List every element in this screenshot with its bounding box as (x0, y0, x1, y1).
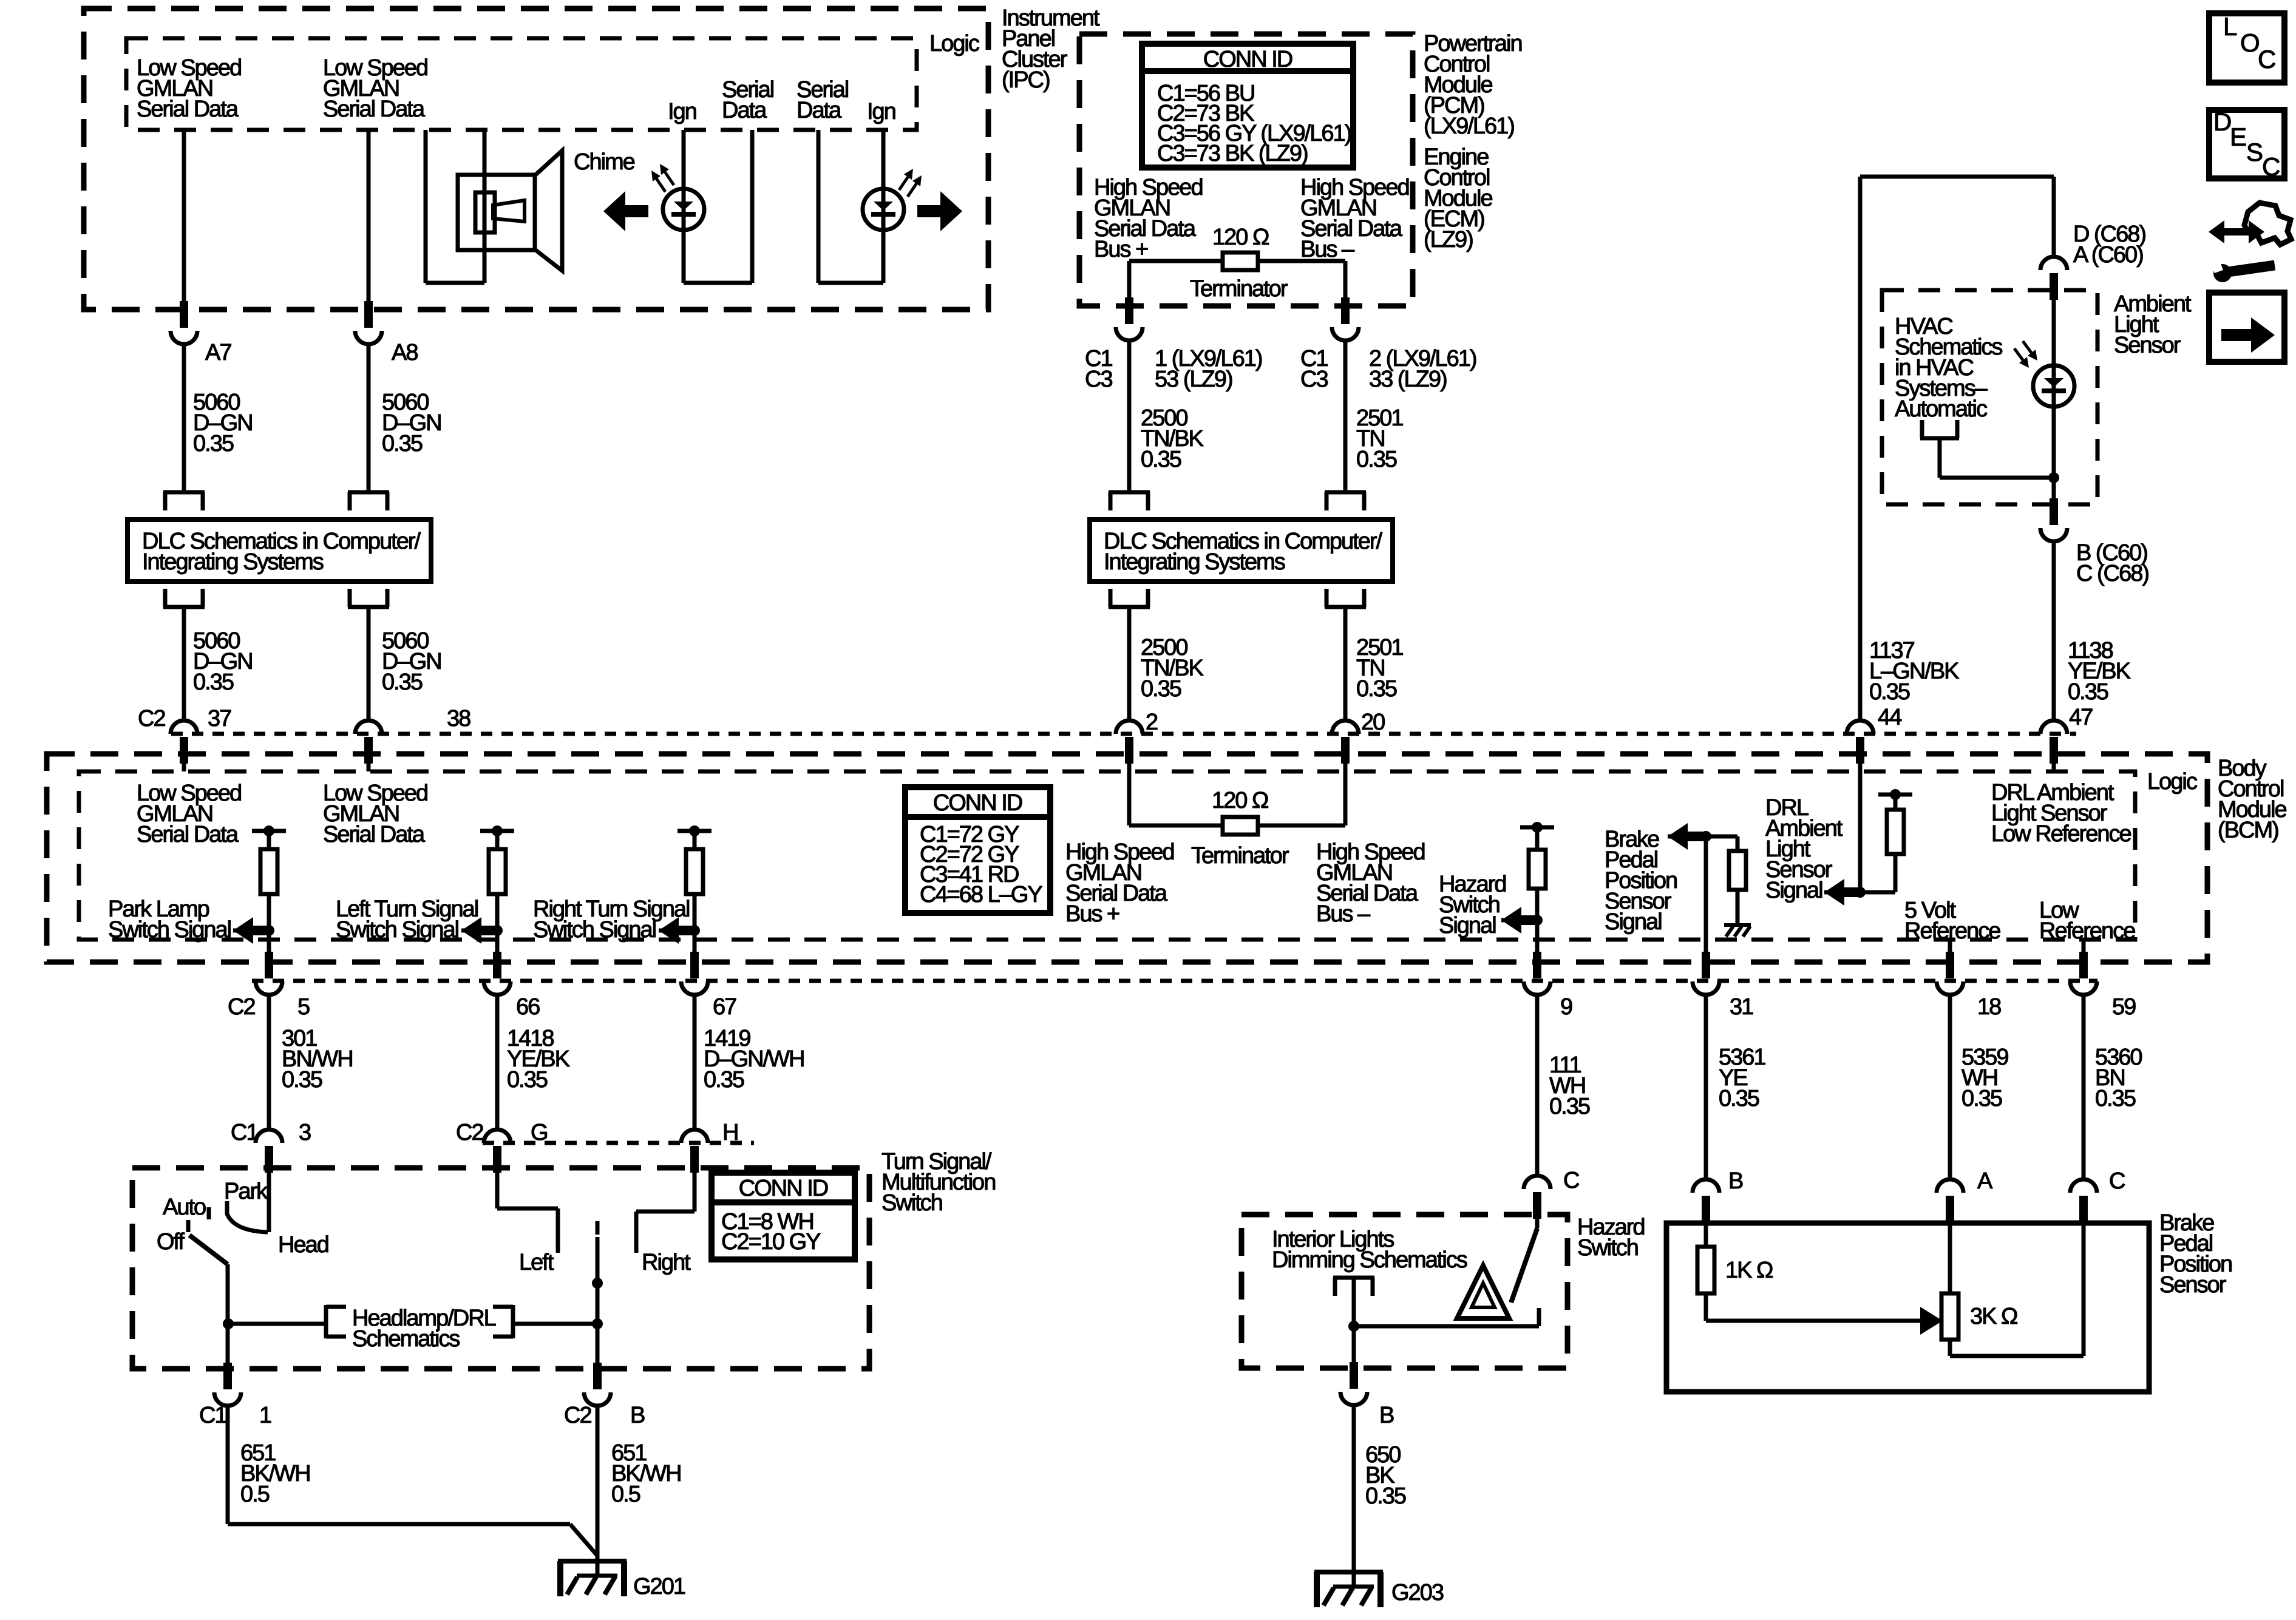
svg-text:0.35: 0.35 (1549, 1094, 1590, 1119)
svg-text:0.35: 0.35 (382, 669, 423, 695)
svg-text:Switch: Switch (1577, 1235, 1638, 1261)
svg-text:Bus +: Bus + (1065, 901, 1119, 927)
svg-text:Logic: Logic (2147, 769, 2197, 795)
svg-text:Terminator: Terminator (1190, 276, 1288, 302)
svg-text:37: 37 (208, 706, 231, 731)
svg-text:0.35: 0.35 (1961, 1086, 2002, 1111)
svg-text:0.35: 0.35 (282, 1067, 322, 1093)
svg-text:Schematics: Schematics (352, 1326, 460, 1352)
svg-text:L: L (2223, 12, 2237, 41)
svg-text:Serial Data: Serial Data (137, 97, 239, 122)
svg-text:Switch Signal: Switch Signal (533, 917, 656, 943)
svg-text:Terminator: Terminator (1191, 843, 1289, 869)
svg-text:Data: Data (796, 98, 842, 123)
svg-text:(LX9/L61): (LX9/L61) (1424, 114, 1514, 139)
svg-text:C3: C3 (1085, 367, 1112, 392)
svg-text:Serial Data: Serial Data (323, 97, 426, 122)
svg-text:38: 38 (447, 706, 470, 731)
svg-text:Ign: Ign (668, 99, 696, 124)
svg-text:G: G (531, 1120, 548, 1145)
svg-text:A7: A7 (205, 340, 231, 365)
svg-text:(BCM): (BCM) (2218, 818, 2278, 843)
svg-text:E: E (2230, 123, 2246, 151)
svg-text:O: O (2240, 29, 2259, 57)
svg-text:Bus –: Bus – (1316, 901, 1371, 927)
svg-text:1K Ω: 1K Ω (1725, 1258, 1773, 1283)
svg-text:C4=68 L–GY: C4=68 L–GY (920, 882, 1042, 907)
svg-text:31: 31 (1730, 994, 1753, 1020)
svg-text:44: 44 (1878, 705, 1902, 730)
svg-text:C3: C3 (1300, 367, 1328, 392)
svg-text:47: 47 (2069, 705, 2093, 730)
svg-text:33 (LZ9): 33 (LZ9) (1369, 367, 1447, 392)
svg-text:C: C (2109, 1168, 2125, 1194)
svg-text:C: C (1563, 1168, 1579, 1193)
svg-text:0.35: 0.35 (1869, 679, 1910, 705)
svg-text:0.35: 0.35 (1719, 1086, 1759, 1111)
svg-text:Serial Data: Serial Data (323, 822, 426, 847)
svg-text:C2=10 GY: C2=10 GY (721, 1229, 821, 1255)
svg-text:(IPC): (IPC) (1002, 67, 1050, 93)
svg-text:C2: C2 (564, 1403, 591, 1428)
svg-text:Integrating Systems: Integrating Systems (1104, 549, 1285, 575)
svg-text:59: 59 (2112, 994, 2136, 1020)
svg-text:0.35: 0.35 (507, 1067, 548, 1093)
svg-text:1: 1 (259, 1403, 271, 1428)
svg-text:120 Ω: 120 Ω (1212, 225, 1269, 250)
svg-text:0.35: 0.35 (1141, 447, 1181, 472)
svg-text:0.35: 0.35 (193, 669, 234, 695)
svg-text:Off: Off (157, 1229, 185, 1255)
svg-text:5: 5 (297, 994, 310, 1020)
svg-text:Sensor: Sensor (2159, 1272, 2227, 1298)
svg-text:0.35: 0.35 (2068, 679, 2108, 705)
svg-text:Data: Data (722, 98, 767, 123)
svg-text:A (C60): A (C60) (2073, 242, 2143, 268)
svg-text:0.35: 0.35 (704, 1067, 744, 1093)
svg-text:G201: G201 (633, 1574, 685, 1599)
svg-text:0.35: 0.35 (193, 431, 234, 456)
svg-text:20: 20 (1361, 710, 1385, 735)
svg-text:Serial Data: Serial Data (137, 822, 239, 847)
svg-text:C3=73 BK (LZ9): C3=73 BK (LZ9) (1157, 141, 1308, 166)
svg-text:53 (LZ9): 53 (LZ9) (1155, 367, 1232, 392)
svg-text:Head: Head (278, 1232, 328, 1258)
svg-text:0.35: 0.35 (382, 431, 423, 456)
svg-text:G203: G203 (1391, 1580, 1444, 1605)
svg-text:18: 18 (1977, 994, 2001, 1020)
svg-text:D: D (2213, 107, 2231, 136)
svg-text:C2: C2 (228, 994, 255, 1020)
svg-text:Switch: Switch (881, 1190, 942, 1216)
svg-text:Bus –: Bus – (1300, 237, 1355, 262)
svg-text:C: C (2262, 152, 2280, 181)
svg-text:Signal: Signal (1439, 913, 1496, 938)
svg-text:C2: C2 (138, 706, 165, 731)
svg-text:H: H (722, 1120, 738, 1145)
svg-text:CONN ID: CONN ID (1203, 47, 1292, 72)
svg-text:0.35: 0.35 (1356, 676, 1397, 702)
svg-text:CONN ID: CONN ID (739, 1176, 828, 1201)
svg-text:3K Ω: 3K Ω (1970, 1304, 2017, 1329)
svg-text:Reference: Reference (1904, 918, 2000, 944)
svg-text:9: 9 (1560, 994, 1572, 1020)
svg-text:0.35: 0.35 (2095, 1086, 2136, 1111)
svg-text:0.35: 0.35 (1356, 447, 1397, 472)
svg-text:Signal: Signal (1765, 878, 1822, 903)
svg-text:Chime: Chime (574, 149, 635, 175)
svg-text:(LZ9): (LZ9) (1424, 227, 1473, 252)
svg-text:C: C (2258, 45, 2275, 73)
svg-text:Park: Park (224, 1179, 268, 1204)
svg-text:120 Ω: 120 Ω (1212, 788, 1268, 813)
svg-text:0.35: 0.35 (1365, 1483, 1406, 1509)
svg-text:S: S (2246, 138, 2263, 166)
svg-text:Switch Signal: Switch Signal (336, 917, 458, 943)
svg-text:A: A (1977, 1168, 1993, 1194)
svg-text:B: B (1728, 1168, 1743, 1194)
svg-text:Left: Left (519, 1250, 554, 1275)
svg-text:C1: C1 (199, 1403, 226, 1428)
svg-text:Ign: Ign (867, 99, 895, 124)
svg-text:0.5: 0.5 (240, 1482, 270, 1507)
svg-text:Bus +: Bus + (1094, 237, 1148, 262)
svg-text:66: 66 (516, 994, 540, 1020)
svg-text:Dimming Schematics: Dimming Schematics (1272, 1247, 1467, 1273)
svg-text:0.5: 0.5 (611, 1482, 640, 1507)
svg-text:3: 3 (299, 1120, 311, 1145)
svg-text:C (C68): C (C68) (2076, 561, 2148, 586)
svg-text:A8: A8 (392, 340, 418, 365)
svg-text:2: 2 (1146, 710, 1158, 735)
svg-text:Integrating Systems: Integrating Systems (142, 549, 324, 575)
svg-text:Sensor: Sensor (2114, 333, 2181, 358)
svg-text:67: 67 (713, 994, 736, 1020)
svg-text:CONN ID: CONN ID (933, 790, 1022, 816)
svg-text:Right: Right (642, 1250, 691, 1275)
svg-text:Automatic: Automatic (1895, 396, 1987, 422)
svg-text:Low Reference: Low Reference (1991, 821, 2131, 847)
svg-text:Logic: Logic (929, 31, 979, 56)
svg-text:Signal: Signal (1605, 909, 1662, 935)
svg-text:Auto: Auto (163, 1195, 206, 1220)
svg-text:C2: C2 (456, 1120, 483, 1145)
svg-text:0.35: 0.35 (1141, 676, 1181, 702)
svg-text:B: B (1379, 1403, 1394, 1428)
svg-text:Reference: Reference (2039, 918, 2135, 944)
svg-text:B: B (630, 1403, 645, 1428)
svg-text:Switch Signal: Switch Signal (108, 917, 231, 943)
